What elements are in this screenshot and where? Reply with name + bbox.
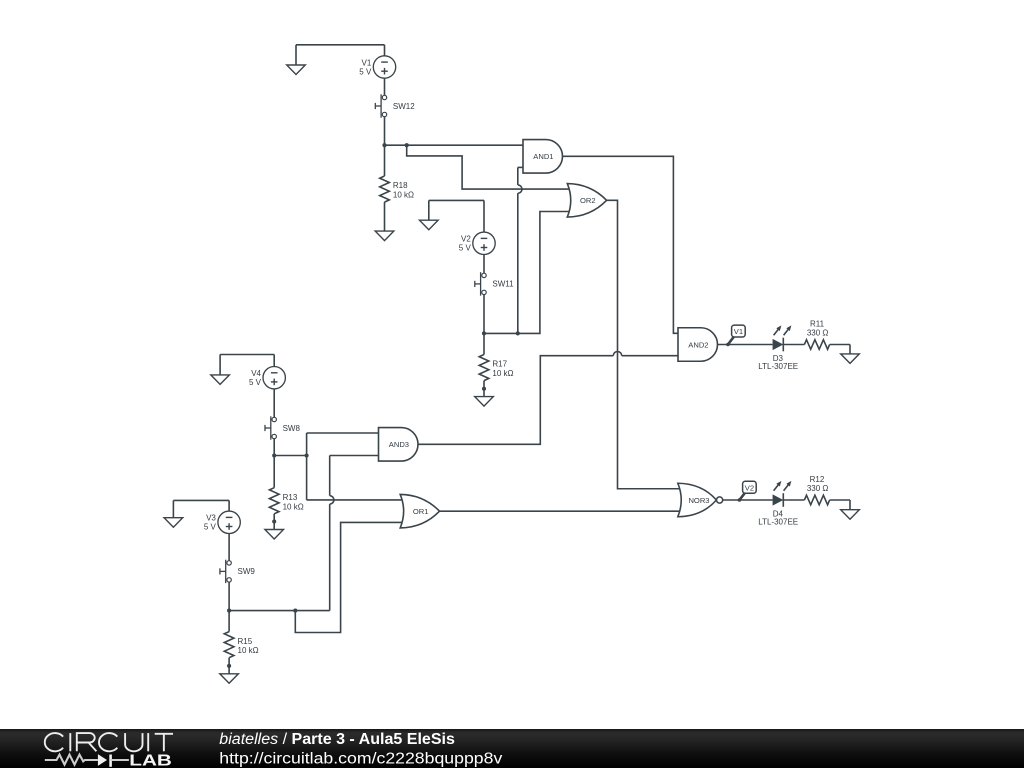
- OR gate OR1: [400, 494, 439, 528]
- svg-text:AND2: AND2: [688, 340, 708, 349]
- wire V3 to SW9: [228, 534, 230, 561]
- wire V4 top to ground: [220, 355, 274, 375]
- switch SW9: [220, 560, 255, 583]
- AND gate AND3: [379, 428, 419, 462]
- OR gate OR2: [567, 184, 606, 218]
- node C junction: [272, 453, 276, 457]
- footer url: [219, 750, 502, 767]
- svg-text:SW8: SW8: [283, 424, 301, 433]
- svg-text:OR2: OR2: [580, 196, 596, 205]
- voltage source V4: [249, 367, 285, 389]
- node D junction: [227, 609, 231, 613]
- voltage source V2: [459, 232, 495, 254]
- wire AND3 out to AND2 in2: [418, 356, 678, 445]
- ground G8 (R15): [220, 674, 239, 684]
- wire node A to R18: [384, 145, 386, 176]
- wire R13 to ground: [272, 514, 276, 530]
- svg-text:R15: R15: [238, 637, 253, 646]
- wire node C to AND3 in1: [307, 433, 379, 456]
- LED D4 LTL-307EE: [758, 481, 798, 527]
- wire SW9 to node D: [228, 582, 230, 611]
- svg-text:5 V: 5 V: [249, 378, 262, 387]
- ground G9 (R11): [841, 354, 860, 364]
- svg-text:R13: R13: [283, 493, 298, 502]
- svg-text:OR1: OR1: [413, 507, 429, 516]
- svg-text:LAB: LAB: [129, 752, 172, 768]
- wire node A to OR2 in1: [407, 145, 572, 189]
- node B junction 2: [516, 331, 520, 335]
- svg-text:SW12: SW12: [393, 102, 415, 111]
- wire node B to OR2 in2: [518, 212, 572, 334]
- resistor R15 10k: [224, 632, 258, 658]
- resistor R17 10k: [479, 355, 513, 381]
- AND gate AND2: [678, 328, 718, 362]
- svg-text:biatelles / Parte 3 - Aula5 El: biatelles / Parte 3 - Aula5 EleSis: [219, 731, 455, 748]
- svg-text:330 Ω: 330 Ω: [807, 329, 829, 338]
- wire hop over OR1 in1: [330, 496, 334, 504]
- svg-text:SW9: SW9: [238, 567, 256, 576]
- ground G6 (R13): [265, 530, 284, 540]
- ground G10 (R12): [841, 510, 860, 520]
- node A junction 2: [405, 143, 409, 147]
- svg-text:V2: V2: [745, 483, 754, 492]
- AND gate AND1: [523, 140, 563, 174]
- resistor R12 330: [804, 475, 829, 505]
- svg-text:SW11: SW11: [492, 280, 514, 289]
- svg-text:V1: V1: [362, 58, 372, 67]
- CircuitLab logo resistor-diode glyph: [45, 754, 129, 767]
- wire D4 to R12: [783, 499, 804, 501]
- node B junction: [482, 331, 486, 335]
- svg-text:R12: R12: [810, 475, 825, 484]
- footer banner: [0, 729, 1024, 768]
- svg-text:LTL-307EE: LTL-307EE: [758, 518, 798, 527]
- svg-text:10 kΩ: 10 kΩ: [393, 191, 414, 200]
- ground G4 (R17): [475, 397, 494, 407]
- wire R17 to ground: [482, 381, 486, 397]
- svg-text:R17: R17: [492, 360, 507, 369]
- wire V2 top to ground: [429, 200, 484, 232]
- CircuitLab logo text CIRCUIT: [45, 733, 173, 751]
- svg-text:5 V: 5 V: [359, 67, 372, 76]
- svg-text:5 V: 5 V: [459, 244, 472, 253]
- wire node D to R15: [228, 611, 230, 632]
- flag V1: [726, 325, 745, 346]
- wire node D right: [229, 610, 330, 612]
- wire SW8 to node C: [273, 439, 275, 456]
- svg-text:NOR3: NOR3: [688, 496, 709, 505]
- svg-text:V2: V2: [461, 235, 471, 244]
- wire D3 to R11: [783, 344, 804, 346]
- NOR gate NOR3: [678, 483, 723, 517]
- svg-text:V4: V4: [251, 369, 261, 378]
- svg-text:5 V: 5 V: [204, 523, 217, 532]
- wire node B to AND1 in2: [518, 167, 523, 333]
- wire AND1 out to AND2 in1: [563, 156, 679, 333]
- resistor R11 330: [804, 319, 829, 349]
- voltage source V1: [359, 56, 395, 78]
- node D junction 2: [293, 609, 297, 613]
- node C junction 2: [305, 453, 309, 457]
- ground G5 (V4): [211, 375, 230, 385]
- switch SW12: [375, 94, 415, 117]
- svg-text:R11: R11: [810, 319, 825, 328]
- wire hop over OR2 out: [613, 352, 621, 356]
- node A junction: [382, 143, 386, 147]
- wire V1 top to ground: [296, 45, 385, 65]
- svg-text:10 kΩ: 10 kΩ: [283, 502, 304, 511]
- wire V3 top to ground: [173, 500, 229, 517]
- LED D3 LTL-307EE: [758, 325, 798, 371]
- svg-text:AND1: AND1: [533, 152, 553, 161]
- wire R15 to ground: [227, 658, 231, 674]
- svg-text:http://circuitlab.com/c2228bqu: http://circuitlab.com/c2228bquppp8v: [219, 750, 502, 767]
- wire V1 to SW12: [384, 78, 386, 95]
- wire R12 to ground: [830, 500, 850, 510]
- wire node C to OR1 in1: [307, 456, 404, 500]
- ground G1 (V1): [287, 65, 306, 75]
- wire OR1 out to NOR3 in2: [440, 510, 682, 512]
- wire R18 to ground: [384, 202, 386, 231]
- svg-text:V1: V1: [734, 327, 743, 336]
- wire node B right: [484, 332, 518, 334]
- svg-text:10 kΩ: 10 kΩ: [238, 646, 259, 655]
- wire V4 to SW8: [273, 389, 275, 417]
- wire hop over OR2 in1: [518, 185, 522, 193]
- wire node B to R17: [483, 333, 485, 354]
- svg-text:330 Ω: 330 Ω: [807, 484, 829, 493]
- switch SW8: [265, 416, 300, 439]
- wire node D to AND3 in2: [330, 456, 379, 611]
- svg-text:LTL-307EE: LTL-307EE: [758, 362, 798, 371]
- wire node A to AND1 in1: [385, 144, 524, 146]
- ground G2 (R18): [375, 231, 394, 241]
- wire SW11 to node B: [483, 295, 485, 334]
- svg-text:10 kΩ: 10 kΩ: [492, 369, 513, 378]
- wire node C to R13: [273, 456, 275, 488]
- wire node C right: [274, 455, 306, 457]
- flag V2: [738, 481, 757, 502]
- wire node D to OR1 in2: [295, 522, 404, 632]
- wire AND2 out to D3: [718, 344, 773, 346]
- resistor R18 10k: [380, 176, 414, 202]
- wire SW12 to node A: [384, 117, 386, 146]
- resistor R13 10k: [269, 488, 303, 514]
- CircuitLab logo text LAB: [129, 752, 172, 768]
- voltage source V3: [204, 511, 240, 533]
- wire NOR3 out to D4: [723, 499, 773, 501]
- footer title: biatelles / Parte 3 - Aula5 EleSis: [219, 731, 455, 748]
- switch SW11: [475, 272, 514, 295]
- ground G7 (V3): [164, 518, 183, 528]
- svg-text:V3: V3: [206, 514, 216, 523]
- wire R11 to ground: [830, 345, 850, 354]
- wire V2 to SW11: [483, 255, 485, 274]
- svg-text:R18: R18: [393, 181, 408, 190]
- ground G3 (V2): [420, 220, 439, 230]
- wire OR2 out to NOR3 in1: [607, 200, 681, 488]
- svg-text:AND3: AND3: [389, 440, 409, 449]
